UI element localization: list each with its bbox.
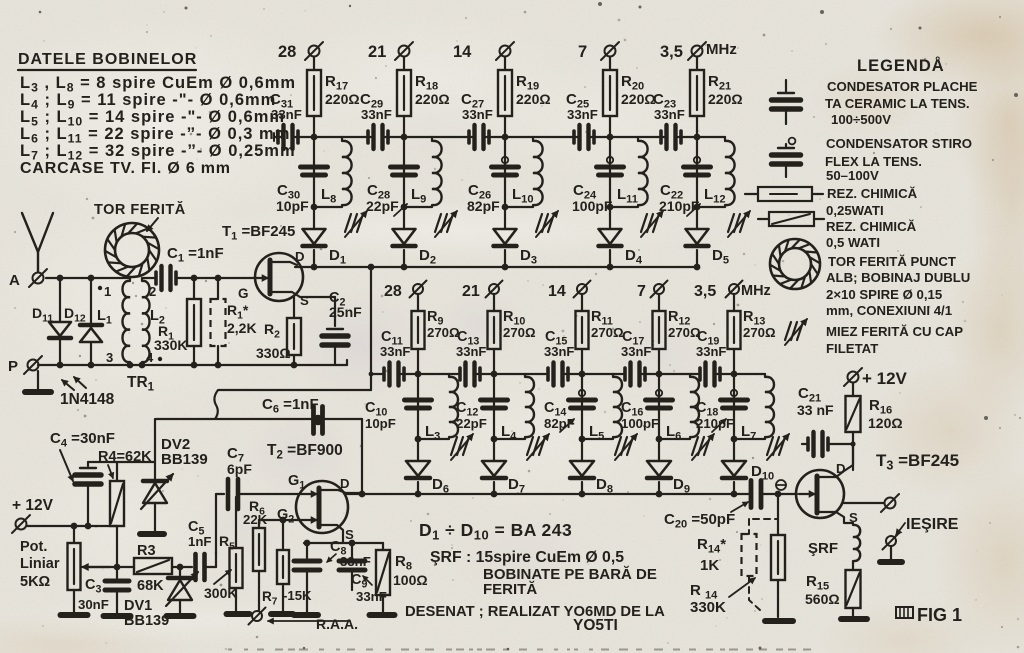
junction D{3} bus [502, 264, 509, 271]
diode D{5} BA243 [686, 229, 709, 244]
inductor L1 primary [123, 281, 131, 362]
capacitor C{31} 33nF [274, 136, 281, 138]
inductor L{4} [524, 374, 526, 377]
T3 channel bar [815, 476, 820, 513]
svg-text:7: 7 [578, 43, 587, 61]
svg-text:30nF: 30nF [78, 597, 109, 612]
junction coil return row1 [607, 204, 614, 211]
diode D{4} BA243 [599, 229, 622, 244]
terminal band 21 MHz row2 [489, 284, 499, 294]
svg-text:D: D [836, 461, 846, 476]
wire node to coil L{9} [404, 136, 432, 138]
svg-text:TA CERAMIC LA TENS.: TA CERAMIC LA TENS. [825, 96, 970, 111]
junction R14 node [775, 491, 782, 498]
wire main vertical row2 10 [493, 374, 495, 461]
terminal band 3,5 MHz row2 [729, 284, 739, 294]
resistor R7 [282, 520, 284, 550]
svg-text:100÷500V: 100÷500V [831, 112, 891, 127]
svg-text:270Ω: 270Ω [743, 325, 776, 340]
capacitor C{17} 33nF row2 [628, 363, 632, 386]
diode D11 1N4148 [59, 278, 61, 322]
svg-text:33 nF: 33 nF [797, 402, 834, 418]
svg-text:MIEZ FERITĂ CU CAP: MIEZ FERITĂ CU CAP [826, 324, 963, 339]
wire main vertical row1 17 [313, 137, 315, 229]
wire main vertical row1 19 [504, 137, 506, 229]
svg-text:REZ. CHIMICĂ: REZ. CHIMICĂ [826, 219, 917, 234]
capacitor C{11} 33nF row2 [387, 363, 391, 386]
svg-text:Liniar: Liniar [20, 556, 60, 572]
capacitor C6 [311, 407, 316, 434]
T2 gate2 arrow [300, 519, 317, 521]
resistor R17 [307, 70, 321, 116]
svg-text:22pF: 22pF [456, 416, 487, 431]
trimmer capacitor C{22} [694, 157, 700, 163]
junction row1 bus coupling [368, 264, 375, 271]
wire C5 to C7 riser [205, 566, 216, 568]
varicap DV1 BB139 [179, 567, 181, 577]
svg-text:100pF: 100pF [621, 416, 659, 431]
wire antenna to L1 [46, 277, 130, 279]
wire R19 to node [504, 116, 506, 137]
wire node to coil L{4} [494, 373, 525, 375]
inductor L{11} [637, 137, 639, 141]
terminal antenna 7 MHz row1 [605, 46, 616, 57]
svg-text:21: 21 [462, 283, 480, 300]
junction node row2 [731, 371, 738, 378]
wire row1 drain bus [295, 266, 697, 268]
ferrite core adjust symbol [435, 214, 441, 232]
wire G2 bias [259, 519, 300, 521]
svg-text:FLEX LA TENS.: FLEX LA TENS. [825, 154, 922, 169]
svg-text:14: 14 [548, 283, 566, 300]
wire terminal to R11 [581, 294, 583, 311]
ground R7 [271, 611, 293, 617]
wire node to coil L{3} [418, 373, 449, 375]
svg-text:3: 3 [106, 350, 113, 365]
resistor R14 [777, 494, 779, 535]
svg-text:D: D [295, 249, 305, 264]
resistor R4 [116, 462, 118, 481]
svg-text:1nF: 1nF [188, 534, 211, 549]
svg-text:1K: 1K [700, 557, 719, 574]
ferrite core adjust symbol [641, 214, 647, 232]
capacitor C{29} 33nF [364, 136, 371, 138]
svg-text:FERITĂ: FERITĂ [483, 581, 537, 598]
trimmer capacitor C{28} [391, 165, 418, 170]
svg-text:DESENAT ; REALIZAT YO6MD DE: DESENAT ; REALIZAT YO6MD DE LA [405, 604, 665, 620]
capacitor C{27} 33nF [465, 136, 472, 138]
junction node row1 [401, 134, 408, 141]
wire coil to next stage cap [638, 136, 657, 138]
junction node row2 [491, 371, 498, 378]
trimmer capacitor C{18} [731, 390, 737, 396]
capacitor C{25} 33nF [570, 136, 577, 138]
wire coil to next cap row2 [613, 373, 623, 375]
T2 drain lead [319, 490, 362, 493]
junction D{8} bus row2 [579, 491, 586, 498]
wire node to coil L{12} [697, 136, 725, 138]
wire node to coil L{7} [734, 373, 765, 375]
wire terminal to R10 [493, 294, 495, 311]
svg-text:10pF: 10pF [276, 198, 309, 214]
legend resistor 0.25W symbol [745, 193, 758, 195]
svg-text:220Ω: 220Ω [621, 91, 656, 107]
wire T2 source bus [304, 542, 383, 544]
resistor R8 [382, 543, 384, 550]
resistor R15 [846, 570, 861, 608]
terminal band 28 MHz row2 [413, 284, 423, 294]
wire C31 stub [273, 133, 275, 141]
resistor R11 [576, 311, 589, 349]
junction node row2 [656, 371, 663, 378]
resistor R20 [603, 70, 617, 116]
wire main vertical row2 13 [733, 374, 735, 461]
svg-text:0,5 WATI: 0,5 WATI [826, 235, 880, 250]
wire node to coil L{10} [505, 136, 533, 138]
junction x117 y567 [114, 564, 121, 571]
junction node row1 [694, 134, 701, 141]
svg-text:Pot.: Pot. [20, 539, 47, 555]
legend styroflex capacitor symbol [789, 138, 796, 145]
wire +12V to R16 [852, 383, 854, 396]
svg-text:330K: 330K [154, 337, 187, 353]
junction D{10} bus row2 [731, 491, 738, 498]
svg-text:330K: 330K [690, 599, 726, 616]
annotation arrow to trimmer row2 [560, 419, 574, 432]
wire row1 bus to row2 coupling vertical [370, 267, 372, 390]
svg-text:220Ω: 220Ω [415, 91, 450, 107]
terminal A [33, 273, 44, 284]
resistor R9 [412, 311, 425, 349]
svg-text:2: 2 [149, 284, 156, 299]
wire DV2 vertical [154, 419, 156, 481]
junction bus x142 [139, 362, 146, 369]
inductor L2 secondary [142, 281, 150, 362]
wire C20 to gate node [761, 493, 797, 495]
wire squiggle vertical x215 [214, 390, 218, 419]
potentiometer 5K [73, 526, 75, 543]
svg-text:33nF: 33nF [621, 344, 651, 359]
svg-text:300K: 300K [204, 585, 237, 601]
svg-text:DATELE BOBINELOR: DATELE BOBINELOR [18, 51, 197, 68]
pin 1 marker [98, 286, 102, 290]
T2 gate1 arrow [300, 493, 317, 495]
svg-text:P: P [8, 358, 18, 375]
junction R1* top [215, 275, 222, 282]
resistor R18 [397, 70, 411, 116]
wire coil to next stage cap [342, 136, 364, 138]
wire coil to next cap row2 [690, 373, 698, 375]
label 1N4148 with arrows [74, 377, 86, 388]
svg-text:MHz: MHz [741, 283, 771, 299]
svg-text:+ 12V: + 12V [12, 497, 54, 514]
wire main vertical row2 12 [658, 374, 660, 461]
junction bus x194 [191, 362, 198, 369]
junction coil return row2 [656, 436, 663, 443]
toroid ferrite core TR1 [105, 223, 159, 277]
svg-text:33nF: 33nF [361, 107, 392, 122]
svg-text:G: G [238, 286, 249, 301]
wire +12V rail [27, 525, 117, 527]
ground C8 [294, 612, 318, 618]
wire coil to next cap row2 [449, 373, 458, 375]
legend ceramic capacitor symbol [785, 80, 787, 92]
pot wiper arrow [82, 566, 110, 568]
svg-text:C6​ =1nF: C6​ =1nF [262, 396, 319, 416]
wire main vertical row1 20 [609, 137, 611, 229]
resistor R1 [193, 278, 195, 299]
svg-text:+ 12V: + 12V [862, 369, 908, 388]
transistor T1 BF245 JFET [255, 253, 303, 301]
wire terminal to R21 [696, 57, 698, 70]
svg-text:28: 28 [278, 43, 296, 61]
resistor R12 [653, 311, 666, 349]
ground output [890, 547, 892, 560]
wire row2 drain bus [347, 493, 751, 495]
resistor R2 [293, 297, 295, 318]
svg-text:330Ω: 330Ω [256, 345, 291, 361]
svg-text:CONDESATOR PLACHE: CONDESATOR PLACHE [827, 79, 978, 94]
varicap DV2 BB139 [143, 479, 167, 484]
wire coupling horizontal y390 [218, 389, 371, 391]
resistor R5 [235, 497, 237, 548]
inductor L{8} [341, 137, 343, 141]
svg-text:33nF: 33nF [380, 344, 410, 359]
wire C11 left lead from coupling [371, 373, 384, 375]
resistor R19 [498, 70, 512, 116]
T2 channel bar [317, 488, 322, 527]
junction C4 bottom [85, 523, 92, 530]
wire C6 to T2 drain node [361, 419, 363, 494]
resistor R14* dashed [749, 494, 778, 519]
svg-text:IEŞIRE: IEŞIRE [906, 516, 959, 533]
terminal +12V right [848, 372, 859, 383]
ferrite core adjust symbol [728, 214, 734, 232]
svg-text:2,2K: 2,2K [227, 320, 257, 336]
T3 gate arrow [799, 493, 815, 495]
junction node row1 [607, 134, 614, 141]
wire terminal to R20 [609, 57, 611, 70]
legend resistor 0.5W symbol [758, 218, 769, 220]
junction bus x218 [215, 362, 222, 369]
antenna A [22, 213, 38, 272]
T1 source lead [270, 292, 335, 297]
junction bus x91 [88, 362, 95, 369]
capacitor C{15} 33nF row2 [551, 363, 555, 386]
annotation arrow to trimmer row2 [712, 419, 726, 432]
capacitor C{23} 33nF [657, 136, 664, 138]
svg-text:C20​ =50pF: C20​ =50pF [664, 511, 735, 531]
terminal output [885, 498, 896, 509]
junction coil return row2 [731, 436, 738, 443]
gate marker theta [776, 480, 786, 490]
wire main vertical row1 21 [696, 137, 698, 229]
svg-text:YO5TI: YO5TI [573, 617, 618, 634]
diode D{9} BA243 [647, 461, 671, 476]
svg-text:22pF: 22pF [366, 198, 399, 214]
svg-text:33nF: 33nF [271, 107, 302, 122]
transistor T3 BF245 [796, 470, 844, 518]
junction node row1 [311, 134, 318, 141]
junction coil return row1 [502, 204, 509, 211]
ferrite core adjust symbol row2 [692, 437, 698, 455]
trimmer capacitor C{14} [579, 390, 585, 396]
svg-text:REZ. CHIMICĂ: REZ. CHIMICĂ [827, 186, 918, 201]
svg-text:120Ω: 120Ω [868, 415, 903, 431]
capacitor C20 [749, 481, 754, 508]
terminal RAA [252, 611, 262, 621]
trimmer capacitor C{26} [502, 157, 508, 163]
svg-text:R3: R3 [137, 543, 156, 559]
ground at P [37, 371, 39, 390]
svg-text:BB139: BB139 [161, 451, 208, 468]
wire R21 to node [696, 116, 698, 137]
legend toroid symbol [770, 239, 820, 289]
svg-text:C1​ =1nF: C1​ =1nF [167, 245, 224, 265]
wire main vertical row2 9 [417, 374, 419, 461]
ferrite core adjust symbol row2 [527, 437, 533, 455]
diode D{7} BA243 [482, 461, 506, 476]
svg-text:4: 4 [146, 350, 154, 365]
diode D12 1N4148 [90, 278, 92, 325]
ferrite core adjust symbol [345, 214, 351, 232]
svg-text:MHz: MHz [706, 41, 737, 58]
capacitor C8 [306, 543, 308, 558]
wire R11 to node row2 [581, 349, 583, 374]
svg-text:mm, CONEXIUNI 4/1: mm, CONEXIUNI 4/1 [826, 303, 952, 318]
legend ferrite core symbol [785, 322, 791, 340]
junction D{6} bus row2 [415, 491, 422, 498]
svg-text:50–100V: 50–100V [826, 168, 879, 183]
ferrite core adjust symbol row2 [615, 437, 621, 455]
wire C4 R4 DV2 top rail [88, 461, 155, 463]
junction T2 drain node [359, 491, 366, 498]
ferrite core adjust symbol [536, 214, 542, 232]
wire R16 to drain [852, 432, 854, 470]
annotation arrow to trimmer [394, 204, 407, 216]
svg-text:0,25WATI: 0,25WATI [826, 203, 884, 218]
junction D12 [88, 275, 95, 282]
wire node to coil L{11} [610, 136, 638, 138]
terminal antenna 21 MHz row1 [399, 46, 410, 57]
svg-text:560Ω: 560Ω [805, 591, 840, 607]
wire main vertical row2 11 [581, 374, 583, 461]
svg-text:A: A [9, 272, 20, 289]
svg-text:33nF: 33nF [696, 344, 726, 359]
wire C6 horizontal y419 [156, 418, 311, 420]
trimmer capacitor C{10} [405, 398, 432, 403]
diode D{6} BA243 [406, 461, 430, 476]
resistor R1* dashed [217, 278, 219, 299]
junction pot top [71, 523, 78, 530]
ground R5 [227, 611, 250, 617]
svg-text:5KΩ: 5KΩ [20, 574, 51, 590]
svg-text:21: 21 [368, 43, 386, 61]
diode D{10} BA243 [722, 461, 746, 476]
svg-text:TOR FERITĂ PUNCT: TOR FERITĂ PUNCT [828, 254, 956, 269]
wire node to coil L{5} [582, 373, 613, 375]
junction DV1 top [177, 564, 184, 571]
T1 gate arrow [257, 277, 268, 279]
wire R20 to node [609, 116, 611, 137]
svg-text:S: S [300, 293, 309, 308]
svg-text:270Ω: 270Ω [427, 325, 460, 340]
junction coil return row2 [415, 436, 422, 443]
junction coil return row1 [401, 204, 408, 211]
svg-text:FIG 1: FIG 1 [917, 605, 962, 625]
svg-text:1N4148: 1N4148 [60, 391, 115, 408]
svg-text:ALB; BOBINAJ DUBLU: ALB; BOBINAJ DUBLU [826, 270, 970, 285]
junction source bus [304, 540, 311, 547]
svg-text:R.A.A.: R.A.A. [316, 616, 358, 632]
svg-text:CONDENSATOR STIRO: CONDENSATOR STIRO [826, 136, 972, 151]
T1 channel bar [268, 260, 273, 294]
svg-text:1: 1 [104, 284, 111, 299]
capacitor C7 [216, 493, 224, 495]
capacitor C4 [87, 462, 89, 466]
terminal P [28, 360, 39, 371]
junction bus x294 [291, 362, 298, 369]
terminal +12V bottom [16, 519, 27, 530]
diode D{8} BA243 [570, 461, 594, 476]
svg-text:C4​ =30nF: C4​ =30nF [50, 430, 115, 450]
svg-text:BB139: BB139 [124, 613, 169, 629]
resistor R3 horizontal [134, 558, 172, 574]
T2 source lead [319, 525, 343, 543]
wire R3 to C5 [172, 566, 192, 568]
wire node to coil L{6} [659, 373, 690, 375]
svg-text:D: D [340, 476, 350, 491]
svg-text:28: 28 [384, 283, 402, 300]
T3 source lead [817, 512, 853, 523]
capacitor C9 [351, 543, 353, 558]
trimmer capacitor C{30} [301, 165, 328, 170]
arrow to toroid [147, 218, 158, 231]
wire terminal to R19 [504, 57, 506, 70]
trimmer capacitor C{24} [607, 157, 613, 163]
svg-text:TOR FERITĂ: TOR FERITĂ [94, 201, 186, 218]
svg-text:R4=62K: R4=62K [98, 449, 152, 465]
junction coil return row1 [311, 204, 318, 211]
junction R1 top [191, 275, 198, 282]
terminal output 2 with arrow [896, 523, 905, 535]
ground pot [61, 612, 88, 618]
T1 drain lead [270, 262, 297, 265]
arrow to R4 [108, 465, 113, 478]
junction coil return row1 [694, 204, 701, 211]
svg-text:CARCASE TV. FI. Ø 6 mm: CARCASE TV. FI. Ø 6 mm [20, 160, 231, 177]
svg-text:ŞRF: ŞRF [808, 540, 838, 557]
fig1 grate symbol [896, 607, 913, 618]
trimmer capacitor C{16} [656, 390, 662, 396]
resistor R21 [690, 70, 704, 116]
label RAA arrow [268, 620, 350, 622]
wire terminal to R17 [313, 57, 315, 70]
svg-text:6pF: 6pF [227, 461, 252, 477]
svg-text:33nF: 33nF [544, 344, 574, 359]
svg-text:FILETAT: FILETAT [826, 341, 878, 356]
ground R14 [765, 618, 793, 624]
terminal band 14 MHz row2 [577, 284, 587, 294]
ferrite core adjust symbol row2 [767, 437, 773, 455]
svg-text:3,5: 3,5 [694, 283, 716, 300]
junction bus x60 [57, 362, 64, 369]
arrow to C4 [60, 450, 73, 481]
terminal band 7 MHz row2 [654, 284, 664, 294]
inductor L{12} [724, 137, 726, 141]
transistor T2 BF900 [296, 481, 348, 533]
junction D{9} bus row2 [656, 491, 663, 498]
